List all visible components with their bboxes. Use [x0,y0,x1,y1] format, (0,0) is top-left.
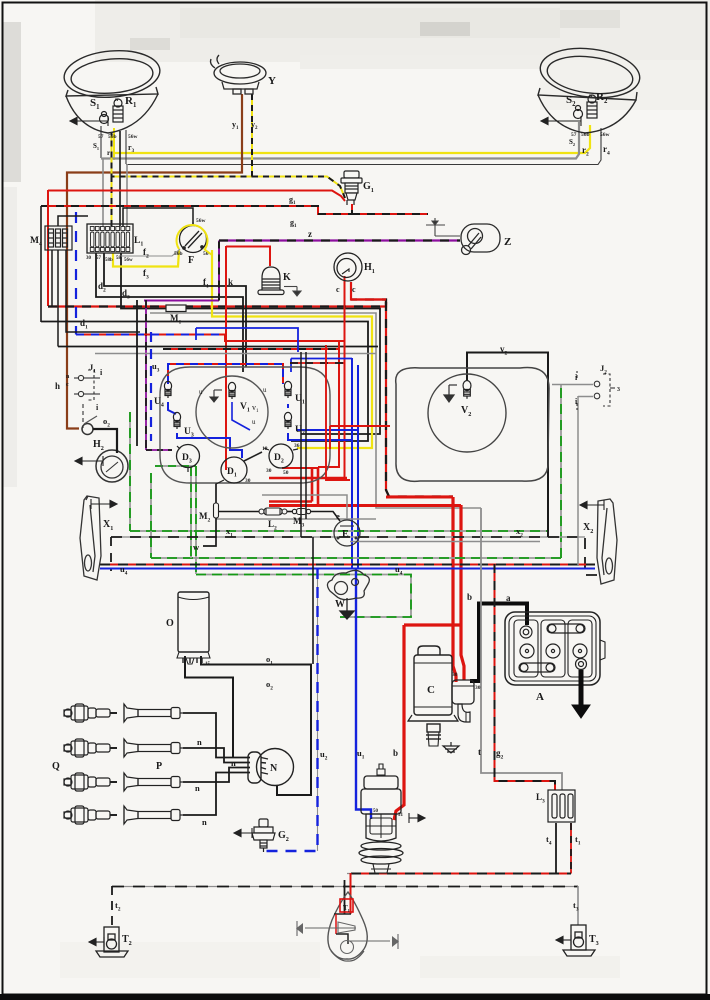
svg-text:u: u [199,388,203,396]
wire dark headlight bus 56w [126,128,601,165]
connector J2 [577,371,615,410]
bottom black bar [0,994,710,1000]
svg-text:n: n [202,817,207,827]
svg-text:K: K [283,272,291,283]
svg-text:Y: Y [268,75,276,87]
svg-text:k: k [228,277,233,287]
svg-text:W: W [335,599,345,610]
battery ground thick arrow [572,670,590,718]
wire red-black dash row mid2 [163,348,340,350]
svg-text:Q: Q [52,761,60,772]
headlamp S1 R1 bowl [62,47,162,133]
wire red row D2 link [330,425,390,427]
wire M1 row black [121,253,166,309]
wire gray headlight bus s1-s2 [101,122,579,159]
wire g1 red-black dashed [41,204,352,214]
X1 arrow [91,499,117,509]
device Z [461,224,500,255]
switch o2 contact [82,424,93,435]
starter motor B [359,764,403,873]
plug boot P1 [124,704,183,722]
wire green row 558 [151,557,561,559]
wire y2 row extension to G1 yellow-black dashed [252,177,345,199]
svg-text:56w: 56w [128,134,138,140]
spark plug Q1 [64,704,117,722]
wire gray row 541 [350,541,540,543]
wire red-dash row 363 [290,362,345,364]
wire M2 column [215,483,217,503]
V2 ground symbol [444,385,457,402]
wire red k feed [226,247,270,267]
wire e chain [219,511,259,513]
generator C ground [443,742,459,753]
wire blue pair to bus [351,358,353,568]
distributor N [248,749,294,786]
wire green short link [155,465,196,467]
svg-text:57: 57 [98,134,104,140]
wire bottom black dashed row [112,886,578,888]
horn button H2 [96,450,128,482]
lamp V2 bulb [463,381,471,399]
wire thick black a battery [470,604,527,682]
ignition coil O [177,592,210,664]
G2 arrow [234,828,252,838]
device Z ground [426,218,460,236]
device K [258,267,284,295]
svg-text:56b: 56b [108,134,117,140]
svg-text:30: 30 [452,672,458,678]
wire L3 bottom black [555,823,557,874]
wire black row 346 [58,346,378,348]
wire T1 black drop [344,880,346,914]
wire red c2 jog [351,282,386,300]
wire M4 bottom drops [51,250,53,306]
svg-text:b: b [467,592,472,602]
svg-text:N: N [270,763,278,774]
oil switch G2 [252,819,275,852]
svg-text:w: w [193,542,200,552]
tail lamp X2 [597,499,617,584]
wire M4 top link [58,216,88,226]
lamp V1 bulb [228,382,235,399]
wire T1 red drop [350,873,352,914]
svg-text:15: 15 [205,662,211,667]
plug boot P4 [124,806,183,824]
wire gray row mid [150,313,481,508]
starter arrow [409,813,425,823]
wire spark plug lead 2 [183,748,250,763]
device E [334,520,360,546]
svg-text:30: 30 [266,468,272,474]
wire blue u4 drop [168,402,176,414]
headlamp S2 bulb [574,95,598,119]
svg-text:57: 57 [96,256,102,261]
wire u2 blue dashed [317,568,319,851]
wire purple down-left [145,300,147,450]
svg-text:c: c [352,285,356,294]
wire gray t column [481,508,562,790]
svg-text:P: P [156,761,162,772]
wire g2 red-black dashed column [495,564,556,790]
svg-text:30: 30 [475,685,481,691]
regulator on C [452,680,474,722]
switch F [180,222,207,253]
sender G1 [341,171,362,205]
wire red row to G1 [48,191,345,202]
wiper W ground [340,598,354,619]
scan shading misc [540,60,710,110]
connector T3 [563,925,595,956]
brake light switch T1 housing [328,892,367,959]
wire F top link [123,208,193,226]
svg-text:58b: 58b [105,258,113,263]
wire blue-dash left column [75,212,77,335]
svg-text:a: a [506,593,511,603]
wire red short rows [269,477,347,479]
svg-text:n: n [589,93,592,99]
battery A [505,612,600,685]
headlamp S1 arrow [70,116,108,126]
fuel gauge V2 housing [396,367,549,481]
svg-text:E: E [342,529,349,540]
svg-text:t: t [478,747,481,757]
svg-text:18: 18 [262,446,268,452]
wire thick red branch to starter b [404,623,461,626]
wire v2 black [467,353,548,538]
wire red dashed row u4 [100,564,595,566]
svg-text:56b: 56b [581,132,590,138]
svg-text:30: 30 [245,478,251,484]
wire brown horn feed y1 [67,94,242,429]
fuse block L3 [548,790,575,822]
svg-text:n: n [195,783,200,793]
svg-text:58: 58 [116,256,122,261]
plug boot P2 [124,739,183,757]
wire blue v1 link [232,402,250,430]
lamp U4 [164,381,171,398]
switch D2 [269,444,293,468]
switch D3 [177,445,200,468]
wire L3 bottom red dashed [570,823,572,874]
lamp U3 [173,412,180,429]
wire o1 black [201,656,311,795]
svg-text:n: n [115,97,118,103]
wire blue u3-v1 [177,433,242,458]
scan shading top band [95,0,710,62]
X2 arrow [580,500,604,510]
svg-text:Z: Z [504,236,511,248]
wire z purple-black dashed row [219,239,460,241]
wire black pair dash zone [300,352,302,537]
spark plug Q4 [64,806,117,824]
wiper motor W [327,570,369,599]
wire black left drop d1 [40,206,42,322]
wire x1-x2 black dashed row [111,536,585,538]
svg-text:F: F [188,255,194,266]
wire x=313 black link [312,537,314,664]
wire green row 574 [196,575,411,618]
fuse box L1 [87,224,133,253]
wire yellow f1 row [212,250,372,448]
T1 carb arrows [305,922,390,954]
svg-text:c: c [336,285,340,294]
wire gray row 519 [216,518,376,520]
tail lamp X1 [80,496,101,580]
wire blue-red dash row a [76,334,225,336]
wire black d2 [104,253,246,367]
resistor M1 [166,305,186,312]
lamp U2 [284,412,291,429]
dashboard housing [160,367,330,483]
svg-text:56w: 56w [196,218,206,224]
wire purple z-link [144,300,219,302]
headlamp S1 bulb [100,99,124,124]
fuel gauge V2 circle [428,374,506,452]
wire green row 531 [130,530,548,532]
svg-text:50: 50 [373,809,379,814]
connector T2 [96,927,128,957]
wire spark plug lead 1 [183,713,250,758]
wire blue u2 link [287,404,289,408]
wire blue short rows mid [195,328,197,340]
wire red-black dashed row mid [48,300,386,307]
wire red ignition pair verticals [311,468,314,502]
fuse M3 [292,509,310,515]
wire blue row [100,568,595,570]
generator C body [408,646,458,746]
V1 ground symbol [210,390,222,402]
wire yellow headlight bus r1-r2 [113,128,115,160]
wire u1 blue [356,568,371,819]
wire t2 drop [111,886,113,928]
speedometer V1 circle [196,376,268,448]
switch F yellow stub [204,249,212,255]
plug boot P3 [124,773,183,791]
svg-text:z: z [308,229,312,239]
lamp U1 [284,381,291,398]
H2 arrow [75,456,103,466]
headlamp S2 arrow [541,116,581,126]
wire blue lamp bus top [168,364,283,384]
wire red-black dash c2 drop [386,302,453,497]
wire J2 gray stubs [552,384,593,386]
svg-text:3: 3 [617,387,620,393]
relay M4 [45,226,72,250]
spark plug Q3 [64,773,117,791]
wire black d1 row [41,322,368,442]
svg-text:56w: 56w [600,132,610,138]
wire spark plug lead 4 [183,773,250,816]
wire horn y2 yellow-black dashed [112,94,253,177]
fuse L2 [259,508,287,515]
spark plug Q2 [64,739,117,757]
wire gray drop to fusebox [102,158,104,226]
wire f3 yellow [113,250,179,267]
fuse M2 [214,503,219,518]
svg-text:u: u [252,418,256,426]
horn Y [211,55,267,94]
svg-text:A: A [536,691,544,703]
wire t3 drop [577,886,579,925]
svg-text:36: 36 [294,443,300,449]
svg-text:h: h [55,381,60,391]
horn contact H1 [334,253,362,281]
svg-text:e: e [336,511,340,521]
device K ground [284,287,301,297]
wire o2 black [185,656,233,757]
wire green verticals left [129,412,131,531]
wire red left drop [47,190,49,306]
svg-text:O: O [166,618,174,629]
svg-text:30: 30 [86,256,92,261]
wire thick red row b lower [269,504,461,507]
wire thick red drops to solenoid [453,497,456,682]
wire black headlight drop [119,131,121,226]
svg-text:c: c [66,382,69,388]
wire black d3 drop mid [136,300,138,446]
svg-text:n: n [197,737,202,747]
svg-text:b: b [393,748,398,758]
wire green vertical to J2 [560,384,562,558]
scan shading left strip [3,22,21,182]
svg-text:56b: 56b [174,251,183,257]
wire e gray [262,495,347,520]
wire f2 thin [120,249,180,256]
wire blue-dash u3 column [150,332,152,441]
connector J1 [74,370,100,428]
svg-text:50: 50 [283,470,289,476]
headlamp S2 R2 bowl [537,43,642,133]
svg-text:51: 51 [398,813,404,818]
wire thick red row b upper [386,496,453,499]
switch D1 [221,457,247,483]
wire red c1 [338,276,345,341]
T1 internals [334,914,351,944]
wire black d3 [96,253,243,372]
wire yellow-black dash into fusebox [111,176,113,226]
svg-text:56w: 56w [124,258,133,263]
svg-text:u: u [263,386,267,394]
svg-text:n: n [231,758,236,768]
wire spark plug lead 3 [183,768,250,783]
svg-text:C: C [427,684,435,696]
wire bottom red-black dashed row [347,873,571,875]
